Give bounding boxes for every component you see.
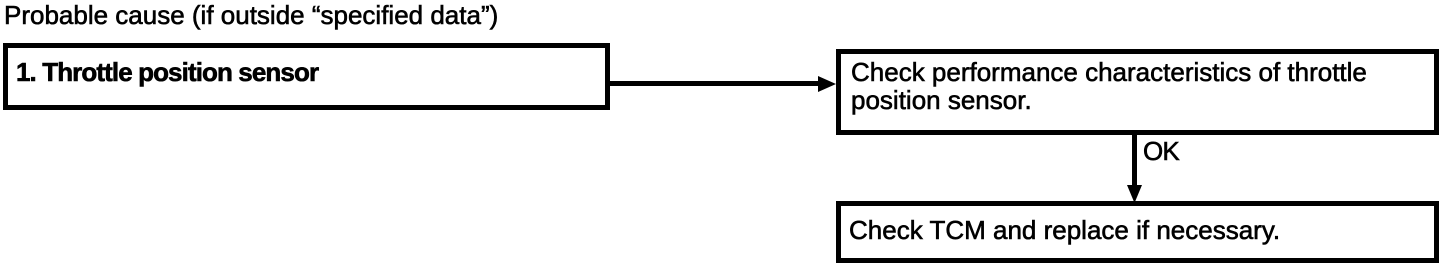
title: Probable cause (if outside "specified data") bbox=[4, 2, 498, 28]
wire: horizontal arrow shaft bbox=[610, 81, 820, 86]
horizontal arrowhead bbox=[818, 76, 836, 92]
box 3: Check TCM bbox=[836, 201, 1439, 263]
box 1: Throttle position sensor bbox=[3, 43, 610, 110]
box 3 label bbox=[849, 217, 1280, 243]
box 2 label bbox=[851, 58, 1367, 114]
label OK bbox=[1143, 138, 1179, 164]
vertical arrowhead bbox=[1127, 185, 1142, 203]
wire: vertical arrow shaft bbox=[1132, 135, 1137, 185]
box 2: Check performance characteristics bbox=[836, 49, 1439, 135]
box 1 label bbox=[16, 59, 318, 85]
